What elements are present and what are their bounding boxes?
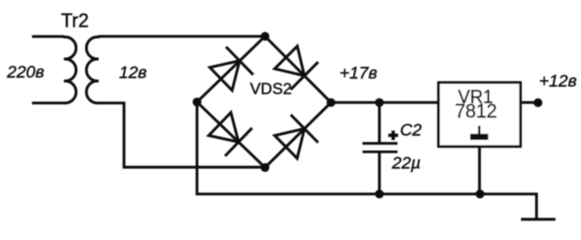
- svg-text:C2: C2: [400, 121, 422, 140]
- svg-text:VDS2: VDS2: [250, 81, 292, 98]
- svg-text:22µ: 22µ: [391, 154, 421, 173]
- svg-text:+12в: +12в: [539, 72, 577, 91]
- svg-text:12в: 12в: [119, 63, 147, 82]
- svg-text:Tr2: Tr2: [61, 11, 89, 32]
- svg-text:220в: 220в: [6, 63, 44, 82]
- svg-text:7812: 7812: [455, 102, 497, 123]
- svg-text:+17в: +17в: [340, 64, 378, 83]
